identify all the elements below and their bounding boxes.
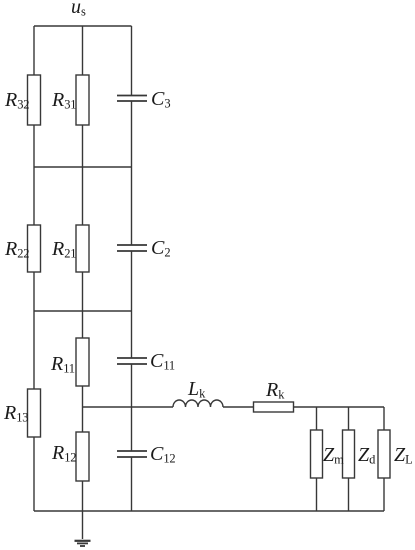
wire right vertical V3 upper segment [131,26,133,96]
wire rung H2 [34,166,132,168]
svg-text:R31: R31 [51,89,76,112]
wire Zm branch [316,407,318,511]
wire Zd branch [348,407,350,511]
wire V3 segment C3 to C2 [131,101,133,245]
svg-text:R12: R12 [51,442,76,465]
svg-text:R22: R22 [4,238,29,261]
svg-text:Zd: Zd [358,444,376,467]
resistor R21 [76,225,89,272]
wire node H4 left segment [83,406,174,408]
resistor R12 [76,432,89,481]
svg-text:C11: C11 [150,350,175,373]
impedance ZL [378,430,390,478]
wire H4 between Lk and Rk [223,406,254,408]
svg-text:Rk: Rk [265,379,285,402]
wire H4 right segment [254,406,385,408]
svg-text:C2: C2 [151,237,170,260]
resistor R32 [28,75,41,125]
resistor Rk [254,402,294,412]
wire V3 segment C11 to C12 [131,364,133,451]
wire rung H3 [34,310,132,312]
svg-text:R32: R32 [4,89,29,112]
capacitor C12 [117,451,147,457]
svg-text:Zm: Zm [323,444,344,467]
resistor R31 [76,75,89,125]
resistor R22 [28,225,41,272]
resistor R13 [28,389,41,437]
svg-text:R21: R21 [51,238,76,261]
impedance Zd [343,430,355,478]
inductor Lk [173,400,223,407]
capacitor C11 [117,358,147,364]
resistor R11 [76,338,89,386]
wire ZL branch [383,407,385,511]
svg-text:ZL: ZL [394,444,413,467]
svg-text:R13: R13 [3,402,28,425]
wire V3 segment C12 to bottom [131,457,133,511]
wire top rail H1 [34,25,132,27]
svg-text:C12: C12 [150,443,175,466]
wire middle vertical V2 [82,26,84,539]
capacitor C2 [117,245,147,251]
svg-text:Lk: Lk [187,378,206,401]
ground [75,541,91,546]
wire bottom rail H5 [34,510,384,512]
wire left vertical V1 [33,26,35,511]
wire V3 segment C2 to C11 [131,251,133,358]
svg-text:R11: R11 [50,353,75,376]
svg-text:C3: C3 [151,88,170,111]
capacitor C3 [117,96,147,102]
svg-text:us: us [71,0,86,19]
impedance Zm [311,430,323,478]
